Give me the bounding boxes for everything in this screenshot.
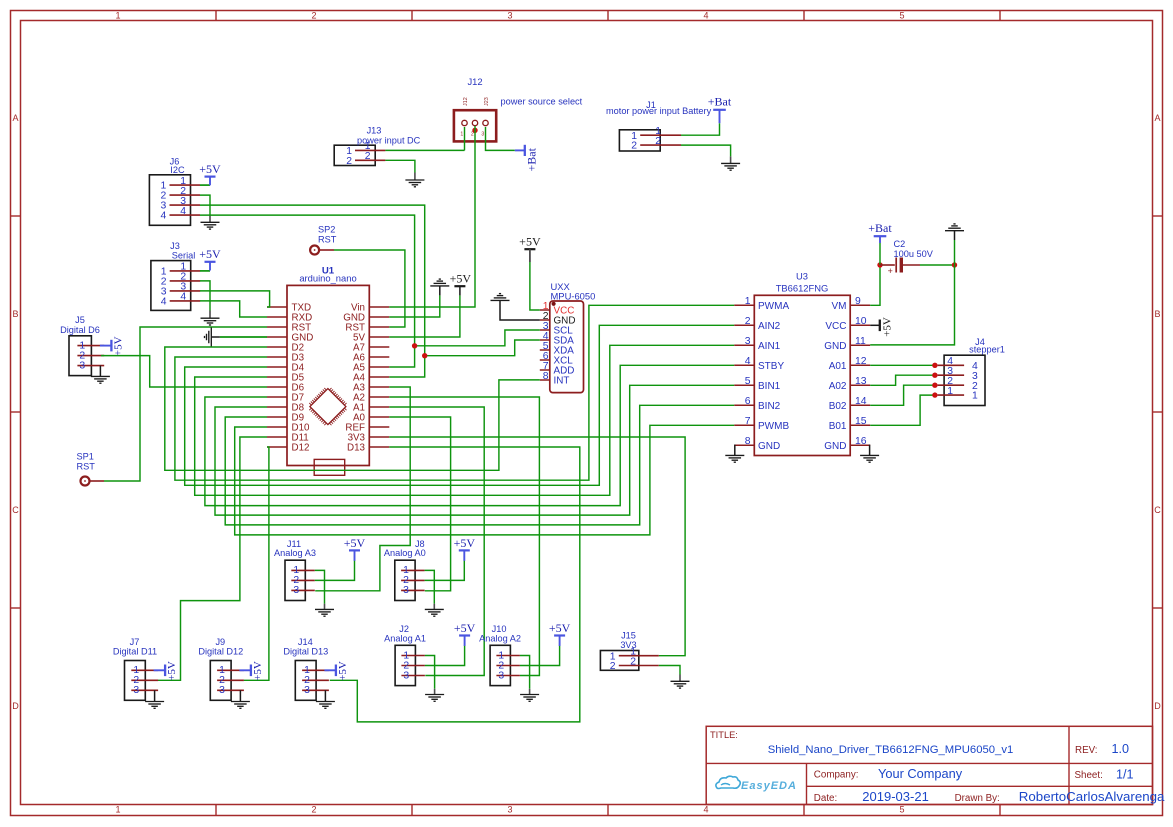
svg-text:+5V: +5V: [450, 272, 472, 286]
svg-text:PWMA: PWMA: [758, 301, 789, 312]
svg-text:2: 2: [365, 151, 371, 162]
wire J8 pin2 to +5V: [425, 560, 465, 580]
svg-text:+5V: +5V: [199, 162, 221, 176]
U1 right pin stubs: [369, 306, 389, 308]
power flag +5V at J8: [459, 549, 470, 551]
svg-text:5: 5: [899, 805, 904, 815]
junction J4 pin3: [932, 373, 937, 378]
U1 left pin stubs: [267, 306, 287, 308]
svg-text:+5V: +5V: [454, 621, 476, 635]
svg-text:+Bat: +Bat: [868, 221, 892, 235]
svg-text:10: 10: [855, 316, 867, 327]
wire J5 pin3 to ground: [99, 366, 101, 377]
wire U1 right GND to inverted ground: [389, 295, 440, 317]
svg-text:INT: INT: [554, 376, 570, 387]
wire net A0 U1-A0 to J8 pin3: [389, 417, 450, 591]
power flag +5V at J7 pin1 (rotated): [164, 665, 166, 677]
wire J10 pin2 to +5V: [520, 646, 560, 666]
wire J15 pin2 to ground: [659, 666, 680, 675]
UXX pin stubs 1-8: [540, 309, 550, 311]
junction J4 pin1: [932, 392, 937, 397]
ground below J2: [425, 694, 444, 696]
wire J1 pin2 to ground: [681, 145, 731, 156]
svg-text:C2: C2: [894, 239, 906, 249]
svg-text:5: 5: [745, 376, 751, 387]
svg-text:Serial: Serial: [172, 250, 196, 260]
svg-text:1: 1: [115, 11, 120, 21]
wire net D4 U1-D4 to U3 AIN2: [185, 325, 735, 485]
J12 pin circles: [462, 120, 467, 125]
svg-text:A02: A02: [829, 381, 847, 392]
ground below J9: [231, 701, 250, 703]
svg-text:3: 3: [745, 336, 751, 347]
svg-text:J5: J5: [75, 315, 85, 325]
wire net D7 U1-D7 to U3 STBY: [205, 365, 734, 505]
connector J8 Analog A0: [395, 560, 415, 600]
svg-text:AIN2: AIN2: [758, 321, 781, 332]
power flag +Bat above C2: [879, 236, 881, 243]
svg-text:1: 1: [972, 391, 978, 402]
connector J6 I2C: [149, 175, 190, 226]
svg-text:3: 3: [219, 685, 225, 696]
wire J9 pin3 to ground: [239, 690, 241, 701]
wire U3 GND16 to ground: [869, 445, 872, 455]
wire net D9 U1-D9 to U3 BIN2: [225, 405, 734, 525]
power flag +Bat right of J12 (rotated): [515, 149, 525, 151]
svg-text:PWMB: PWMB: [758, 421, 789, 432]
svg-text:+5V: +5V: [199, 247, 221, 261]
svg-text:J23: J23: [484, 97, 490, 106]
wire J12 pin1 down: [464, 127, 466, 150]
svg-text:+Bat: +Bat: [524, 147, 538, 171]
svg-text:A01: A01: [829, 361, 847, 372]
junction J12 pin2: [472, 128, 477, 133]
connector J10 Analog A2: [490, 645, 510, 685]
junction J4 pin2: [932, 383, 937, 388]
svg-text:B: B: [12, 309, 18, 319]
svg-text:5: 5: [899, 11, 904, 21]
power flag +5V at J5 pin1 (rotated): [110, 340, 112, 352]
svg-text:TB6612FNG: TB6612FNG: [776, 282, 829, 293]
svg-text:1/1: 1/1: [1116, 767, 1134, 781]
svg-text:RST: RST: [318, 234, 337, 244]
ground below U3 pin16: [860, 454, 879, 456]
svg-text:J12: J12: [467, 76, 482, 87]
svg-text:4: 4: [161, 211, 167, 222]
svg-text:Your Company: Your Company: [878, 766, 963, 781]
svg-text:+5V: +5V: [344, 536, 366, 550]
svg-text:2: 2: [471, 132, 474, 138]
svg-text:1: 1: [460, 132, 463, 138]
svg-text:Analog A2: Analog A2: [479, 633, 521, 643]
wire J3 pin3 to U1 TXD: [200, 291, 270, 307]
wire net A3 U1-A3 to J11 pin3: [315, 387, 410, 591]
connector J9 Digital D12: [210, 661, 231, 701]
svg-text:J13: J13: [367, 125, 382, 135]
junction SCL at A5 riser: [412, 343, 417, 348]
svg-text:13: 13: [855, 376, 867, 387]
svg-text:+Bat: +Bat: [708, 94, 732, 108]
wire J6 pin2 to ground: [200, 195, 210, 214]
svg-text:+5V: +5V: [166, 661, 178, 681]
frame row ticks left: [11, 215, 21, 217]
connector J13 power input DC: [334, 145, 375, 165]
svg-text:J12: J12: [463, 97, 469, 106]
wire C2 right to ground riser: [920, 264, 955, 266]
svg-text:D12: D12: [292, 442, 310, 453]
wire net 3V3 U1-3V3 to J15 pin1: [389, 437, 685, 656]
connector J3 Serial: [151, 261, 191, 311]
svg-text:RobertoCarlosAlvarenga: RobertoCarlosAlvarenga: [1019, 789, 1165, 804]
svg-text:+5V: +5V: [337, 661, 349, 681]
svg-text:15: 15: [855, 416, 867, 427]
svg-text:TITLE:: TITLE:: [710, 730, 738, 740]
ground at U1 GND pin (rotated left): [210, 328, 212, 347]
wire U3 A01 to J4 pin4: [870, 364, 935, 366]
title block right column divider: [1068, 726, 1070, 804]
svg-text:3: 3: [133, 685, 139, 696]
title block logo cell divider: [806, 763, 808, 804]
svg-text:4: 4: [703, 11, 708, 21]
power flag +5V at J10: [554, 634, 565, 636]
svg-text:6: 6: [745, 396, 751, 407]
svg-text:U3: U3: [796, 270, 808, 281]
wire net SCL J6 pin4 / U1 A5 / MPU SCL: [200, 215, 415, 367]
frame column ticks bottom: [215, 805, 217, 816]
wire J2 pin2 to +5V: [425, 646, 465, 666]
svg-text:Analog A1: Analog A1: [384, 633, 426, 643]
wire U3 VM to +Bat rail: [870, 265, 880, 305]
svg-text:C: C: [1154, 505, 1161, 515]
ground below J7: [145, 701, 164, 703]
svg-text:arduino_nano: arduino_nano: [299, 273, 356, 284]
svg-text:C: C: [12, 505, 19, 515]
svg-text:4: 4: [703, 805, 708, 815]
UXX pin1 marker dot: [552, 302, 556, 306]
svg-text:stepper1: stepper1: [969, 344, 1005, 354]
svg-text:+5V: +5V: [549, 621, 571, 635]
svg-text:SP1: SP1: [77, 452, 94, 462]
wire J5 pin2 to U1 D6: [101, 356, 267, 387]
svg-text:VM: VM: [832, 301, 847, 312]
ground below J11: [315, 608, 334, 610]
wire U3 B02 to J4 pin2: [870, 385, 935, 405]
power flag +Bat above J1: [719, 110, 721, 123]
svg-text:1: 1: [115, 805, 120, 815]
svg-text:GND: GND: [758, 441, 780, 452]
power flag +5V at J3 pin1: [200, 270, 210, 272]
capacitor C2 100u 50V: [880, 264, 895, 266]
wire J13 pin2 to ground: [385, 160, 415, 172]
wire net A2 U1-A2 to J10 pin3: [389, 397, 539, 676]
svg-text:SP2: SP2: [318, 224, 335, 234]
connector J12 power source select: [454, 110, 496, 141]
IC U1 arduino_nano body: [287, 285, 369, 465]
wire net D12 U1-D12 to J9 pin2: [244, 447, 269, 680]
wire net D3 U1-D3 to U3 PWMA: [175, 305, 734, 480]
wire ground riser down to U3 GND11: [870, 240, 954, 345]
svg-text:4: 4: [180, 206, 186, 217]
svg-text:D: D: [12, 701, 19, 711]
svg-text:3: 3: [403, 585, 409, 596]
wire J8 pin1 to ground: [425, 570, 435, 603]
svg-text:2019-03-21: 2019-03-21: [862, 789, 929, 804]
frame row ticks right: [1153, 215, 1163, 217]
svg-text:2: 2: [346, 156, 352, 167]
svg-text:+: +: [888, 266, 893, 276]
wire J11 pin1 to ground: [315, 570, 325, 603]
svg-text:1: 1: [947, 386, 953, 397]
U3 left pin stubs: [734, 304, 754, 306]
connector J5 Digital D6: [69, 336, 91, 376]
power flag +5V at J14 pin1 (rotated): [335, 665, 337, 677]
connector J2 Analog A1: [395, 645, 415, 685]
junction SDA at A4 riser: [422, 353, 427, 358]
ground below J3: [201, 317, 220, 319]
svg-text:STBY: STBY: [758, 361, 784, 372]
inverted ground above C2 right: [945, 230, 964, 232]
svg-text:2: 2: [311, 805, 316, 815]
svg-text:11: 11: [855, 336, 866, 347]
wire ground to MPU GND: [500, 300, 540, 320]
svg-text:RST: RST: [77, 462, 96, 472]
wire J3 pin2 to ground: [200, 281, 210, 311]
svg-text:D13: D13: [347, 442, 366, 453]
svg-text:Digital D12: Digital D12: [198, 647, 243, 657]
wire SP2 to U1 right RST: [334, 250, 405, 327]
svg-text:2: 2: [610, 661, 616, 672]
svg-text:EasyEDA: EasyEDA: [741, 780, 797, 792]
svg-text:I2C: I2C: [170, 165, 185, 175]
svg-text:1: 1: [745, 296, 751, 307]
junction J4 pin4: [932, 363, 937, 368]
svg-text:2: 2: [745, 316, 751, 327]
wire J12 pin2 to U1 Vin: [389, 126, 475, 307]
svg-text:motor power input Battery: motor power input Battery: [606, 106, 712, 116]
power flag +5V at J9 pin1 (rotated): [250, 665, 252, 677]
connector J11 Analog A3: [285, 560, 305, 600]
ground below J1: [721, 162, 740, 164]
U1 crystal rectangle: [314, 459, 345, 475]
wire U1 5V to +5V black flag: [389, 295, 460, 337]
EasyEDA logo: [716, 776, 797, 792]
svg-text:A: A: [1154, 113, 1160, 123]
svg-text:B01: B01: [829, 421, 847, 432]
svg-text:REV:: REV:: [1075, 745, 1098, 756]
svg-text:B: B: [1154, 309, 1160, 319]
svg-text:3: 3: [507, 805, 512, 815]
svg-text:4: 4: [180, 292, 186, 303]
svg-text:8: 8: [543, 371, 549, 382]
svg-text:Digital D13: Digital D13: [283, 647, 328, 657]
inverted ground above MPU GND: [491, 299, 510, 301]
svg-text:12: 12: [855, 356, 867, 367]
svg-text:8: 8: [745, 436, 751, 447]
svg-text:Date:: Date:: [814, 793, 837, 804]
svg-text:3: 3: [403, 670, 409, 681]
svg-text:Shield_Nano_Driver_TB6612FNG_M: Shield_Nano_Driver_TB6612FNG_MPU6050_v1: [768, 744, 1014, 756]
inverted ground above U1 right GND: [430, 285, 449, 287]
svg-text:VCC: VCC: [825, 321, 846, 332]
wire J13 pin1 to J12 pin1: [385, 149, 464, 151]
wire +Bat rail up: [879, 243, 881, 265]
wire J11 pin2 to +5V: [315, 560, 355, 580]
svg-text:16: 16: [855, 436, 867, 447]
wire net D5 U1-D5 to U3 AIN1: [195, 345, 735, 495]
svg-text:D: D: [1154, 701, 1161, 711]
power flag +5V at J2: [459, 634, 470, 636]
wire J10 pin1 to ground: [520, 656, 530, 689]
svg-text:+5V: +5V: [881, 317, 893, 337]
wire J1 pin1 to +Bat: [681, 123, 720, 135]
ground below J13: [405, 179, 424, 181]
wire net SDA J6 pin3 / U1 A4 / MPU SDA: [200, 205, 425, 377]
svg-text:+5V: +5V: [519, 235, 541, 249]
svg-text:2: 2: [655, 136, 661, 147]
svg-text:3: 3: [481, 132, 484, 138]
svg-text:BIN2: BIN2: [758, 401, 781, 412]
SP2 pin stub: [320, 249, 334, 251]
wire net D2 U1-D2 to MPU INT: [165, 347, 540, 470]
svg-text:100u 50V: 100u 50V: [894, 249, 934, 259]
connector J4 stepper1: [944, 355, 985, 405]
svg-text:14: 14: [855, 396, 867, 407]
svg-text:Digital D6: Digital D6: [60, 325, 100, 335]
svg-text:+5V: +5V: [454, 536, 476, 550]
svg-text:2: 2: [631, 141, 637, 152]
wire net D11 U1-D11 to J7 pin2: [158, 437, 267, 680]
svg-text:+5V: +5V: [252, 661, 264, 681]
svg-text:Company:: Company:: [814, 769, 859, 780]
svg-text:3: 3: [498, 670, 504, 681]
svg-text:4: 4: [161, 297, 167, 308]
wire J3 pin4 to U1 RXD: [200, 301, 267, 317]
svg-text:power input DC: power input DC: [357, 136, 421, 146]
SP1 pin stub: [90, 480, 104, 482]
wire net D13 U1-D13 to J14 pin2: [330, 447, 580, 722]
power flag +5V at J6 pin1: [200, 184, 210, 186]
svg-text:Analog A0: Analog A0: [384, 548, 426, 558]
svg-text:GND: GND: [824, 441, 846, 452]
connector J7 Digital D11: [125, 661, 146, 701]
svg-text:3: 3: [293, 585, 299, 596]
U1 chip glyph diamond: [309, 388, 346, 425]
svg-text:3: 3: [79, 360, 85, 371]
svg-text:7: 7: [745, 416, 751, 427]
jumper SP2 RST pad: [310, 246, 319, 255]
svg-text:GND: GND: [824, 341, 846, 352]
ground below J8: [425, 608, 444, 610]
svg-text:A: A: [12, 113, 18, 123]
svg-text:2: 2: [630, 656, 636, 667]
ground below J10: [520, 694, 539, 696]
wire J12 pin3 down to +Bat: [486, 127, 515, 150]
ground below J14: [316, 701, 335, 703]
title block outline: [706, 726, 1152, 804]
svg-text:3V3: 3V3: [620, 640, 636, 650]
wire U3 B01 to J4 pin1: [870, 395, 935, 425]
wire U1 GND pin to ground: [211, 336, 220, 338]
ground below J5: [91, 375, 110, 377]
svg-text:4: 4: [745, 356, 751, 367]
ground below U3 pin8: [725, 454, 744, 456]
connector J1 motor power input Battery: [619, 130, 660, 151]
wire U3 VCC to +5V black rotated flag: [870, 324, 879, 326]
title block row divider 1: [706, 762, 1152, 764]
IC U3 TB6612FNG body: [754, 295, 850, 455]
svg-text:Sheet:: Sheet:: [1075, 770, 1103, 781]
svg-text:Analog A3: Analog A3: [274, 548, 316, 558]
jumper SP1 RST pad: [81, 477, 90, 486]
connector J15 3V3: [600, 651, 638, 671]
svg-text:Digital D11: Digital D11: [113, 647, 157, 657]
svg-text:BIN1: BIN1: [758, 381, 781, 392]
svg-text:1.0: 1.0: [1112, 742, 1130, 756]
svg-text:MPU-6050: MPU-6050: [551, 291, 596, 302]
wire J2 pin1 to ground: [425, 656, 435, 689]
svg-text:B02: B02: [829, 401, 847, 412]
svg-text:Drawn By:: Drawn By:: [955, 793, 1000, 804]
frame column ticks top: [215, 11, 217, 21]
svg-text:3: 3: [507, 11, 512, 21]
connector J14 Digital D13: [295, 661, 316, 701]
wire U3 A02 to J4 pin3: [870, 375, 935, 385]
junction at C2 left: [877, 262, 882, 267]
wire net D10 U1-D10 to U3 PWMB: [235, 425, 735, 535]
wire +5V to MPU VCC: [530, 262, 540, 310]
ground below J6: [201, 221, 220, 223]
wire U3 GND8 to ground: [733, 445, 736, 455]
junction at C2 right: [952, 262, 957, 267]
svg-text:power source select: power source select: [501, 96, 583, 106]
wire SP1 to U1 RST: [104, 327, 267, 481]
power flag +5V black near U1: [454, 285, 465, 287]
wire J14 pin3 to ground: [324, 690, 326, 701]
svg-text:3: 3: [304, 685, 310, 696]
power flag +5V at J11: [349, 549, 360, 551]
svg-text:+5V: +5V: [112, 336, 124, 356]
svg-text:AIN1: AIN1: [758, 341, 781, 352]
U3 right pin stubs: [850, 304, 870, 306]
title block row divider 2: [807, 785, 1153, 787]
wire J7 pin3 to ground: [154, 690, 156, 701]
svg-text:2: 2: [311, 11, 316, 21]
wire net D8 U1-D8 to U3 BIN1: [215, 385, 734, 515]
svg-text:9: 9: [855, 296, 861, 307]
IC UXX MPU-6050 body: [550, 301, 584, 393]
ground below J15: [671, 680, 690, 682]
wire net A1 U1-A1 to J2 pin3: [389, 407, 484, 676]
